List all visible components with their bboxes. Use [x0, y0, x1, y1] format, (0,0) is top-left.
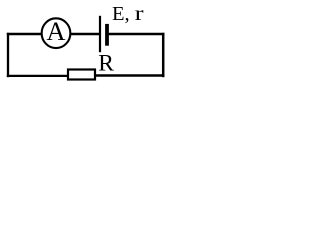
- right wire (vertical): [162, 33, 165, 77]
- wire: battery to top-right corner: [109, 33, 165, 35]
- svg-text:E,: E,: [112, 3, 130, 25]
- wire: bottom-left segment (corner to resistor): [7, 75, 68, 77]
- ammeter A: [42, 16, 71, 48]
- svg-text:A: A: [46, 16, 65, 46]
- battery long thin plate (positive): [99, 16, 101, 52]
- svg-text:r: r: [135, 3, 144, 25]
- svg-text:R: R: [98, 50, 114, 76]
- wire: ammeter to battery segment: [71, 33, 101, 35]
- wire: top-left horizontal segment (corner to ammeter): [7, 33, 43, 35]
- wire: resistor to bottom-right corner: [95, 74, 164, 76]
- left wire (vertical): [7, 33, 9, 77]
- battery short thick plate (negative): [105, 24, 109, 46]
- resistor R (box): [68, 70, 95, 80]
